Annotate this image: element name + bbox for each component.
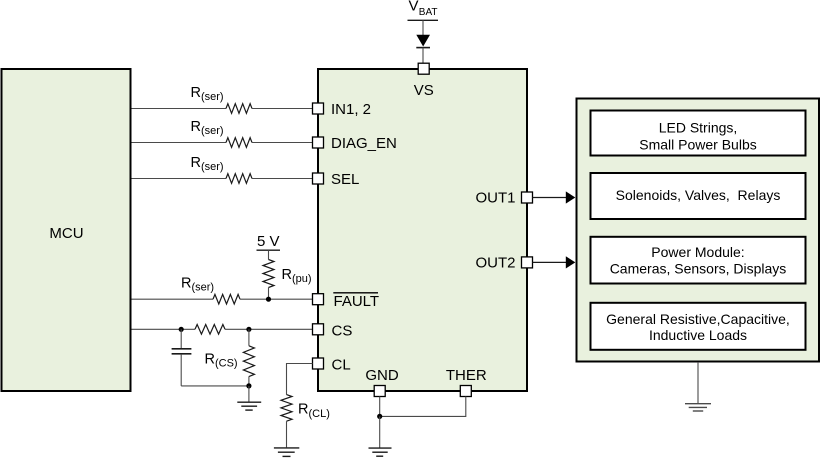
wire OUT2 to loads: [533, 256, 576, 268]
wire OUT1 to loads: [533, 191, 576, 203]
svg-text:Small Power Bulbs: Small Power Bulbs: [639, 137, 757, 153]
diode (reverse battery protection): [416, 35, 430, 48]
load box: General Resistive, Capacitive, Inductive Loads: [591, 303, 806, 350]
wire diode to VS pin: [422, 48, 424, 64]
svg-text:SEL: SEL: [331, 171, 359, 188]
pin IN1, 2: [313, 101, 372, 118]
pin CL: [313, 357, 351, 374]
wire MCU to R(ser) row 2: [132, 142, 227, 144]
svg-text:Inductive Loads: Inductive Loads: [649, 327, 747, 343]
ground GND/THER: [369, 416, 392, 456]
junction FAULT/R(pu): [266, 297, 271, 302]
svg-text:Solenoids, Valves, Relays: Solenoids, Valves, Relays: [616, 187, 781, 203]
svg-text:R(ser): R(ser): [191, 119, 224, 137]
svg-text:CL: CL: [332, 357, 351, 374]
resistor R(ser) row 3: [191, 155, 252, 184]
ground loads: [685, 404, 711, 411]
wire THER to GND net: [380, 397, 466, 417]
svg-text:OUT1: OUT1: [475, 189, 515, 206]
wire R(CS) to bottom junction: [248, 377, 250, 386]
svg-text:R(CS): R(CS): [205, 352, 238, 370]
pin OUT2: [475, 254, 532, 271]
junction CS bottom: [246, 383, 251, 388]
wire bottom rail CS network: [181, 385, 249, 387]
wire R(ser) to pin row 2: [252, 142, 313, 144]
pin GND: [365, 367, 399, 397]
wire MCU to CS network: [132, 328, 196, 330]
svg-text:Power Module:: Power Module:: [651, 244, 744, 260]
wire CS junction to capacitor: [180, 329, 182, 348]
supply rail 5 V: [257, 233, 281, 250]
wire 5V to R(pu): [268, 250, 270, 259]
ground CS network: [237, 386, 261, 410]
svg-text:IN1, 2: IN1, 2: [331, 101, 371, 118]
svg-text:Cameras, Sensors, Displays: Cameras, Sensors, Displays: [610, 261, 787, 277]
wire V_BAT to diode: [422, 20, 424, 35]
resistor R(CL): [281, 395, 330, 422]
wire R(CL) to ground: [286, 421, 288, 447]
wire CL pin to R(CL): [287, 364, 313, 395]
IC block (high-side switch): [318, 69, 527, 391]
svg-text:R(ser): R(ser): [191, 155, 224, 173]
resistor R(ser) row 1: [191, 85, 252, 113]
wire CS resistor to CS pin: [225, 328, 313, 330]
pin VS: [414, 63, 434, 99]
wire GND pin down: [379, 397, 381, 417]
svg-text:R(ser): R(ser): [191, 85, 224, 103]
pin THER: [446, 367, 487, 397]
svg-text:BAT: BAT: [419, 7, 438, 18]
wire R(pu) to FAULT line: [268, 288, 270, 300]
pin FAULT (active low, overline): [313, 293, 380, 310]
resistor CS filter (series): [195, 325, 225, 335]
svg-text:DIAG_EN: DIAG_EN: [331, 135, 397, 152]
resistor R(ser) row 2: [191, 119, 252, 148]
load box: Solenoids, Valves, Relays: [591, 173, 806, 219]
wire capacitor to bottom rail: [180, 354, 182, 386]
pin DIAG_EN: [313, 135, 397, 152]
capacitor CS filter: [172, 349, 192, 354]
junction GND net: [377, 414, 382, 419]
pin SEL: [313, 171, 360, 188]
svg-text:R(CL): R(CL): [298, 402, 330, 420]
load box: Power Module: Cameras, Sensors, Displays: [591, 237, 806, 284]
wire R(ser) to FAULT pin: [240, 298, 313, 300]
supply rail V_BAT: [408, 0, 439, 20]
junction CS left: [179, 327, 184, 332]
wire R(ser) to pin row 3: [252, 178, 313, 180]
junction CS right: [246, 327, 251, 332]
svg-text:General Resistive,Capacitive,: General Resistive,Capacitive,: [606, 311, 790, 327]
resistor R(CS): [205, 346, 255, 377]
svg-text:FAULT: FAULT: [334, 293, 380, 310]
ground R(CL): [274, 448, 299, 457]
svg-text:R(ser): R(ser): [181, 276, 214, 294]
svg-text:MCU: MCU: [49, 225, 83, 242]
resistor R(pu): [263, 260, 312, 288]
svg-text:CS: CS: [332, 323, 353, 340]
svg-text:VS: VS: [414, 82, 434, 99]
svg-text:V: V: [409, 0, 419, 15]
pin CS: [313, 323, 353, 340]
resistor R(ser) FAULT row: [181, 276, 240, 305]
wire MCU to R(ser) row 3: [132, 178, 227, 180]
MCU block: [2, 69, 131, 391]
wire CS junction to R(CS): [248, 329, 250, 346]
svg-text:GND: GND: [365, 367, 399, 384]
svg-text:THER: THER: [446, 367, 487, 384]
svg-text:5 V: 5 V: [257, 233, 280, 250]
wire MCU to R(ser) FAULT row: [132, 298, 214, 300]
wire loads box to ground: [697, 362, 699, 403]
loads outer box: [577, 99, 820, 362]
svg-text:R(pu): R(pu): [282, 267, 312, 285]
svg-text:LED Strings,: LED Strings,: [659, 120, 738, 136]
load box: LED Strings, Small Power Bulbs: [591, 111, 806, 156]
wire MCU to R(ser) row 1: [132, 108, 227, 110]
pin OUT1: [475, 189, 532, 206]
svg-text:OUT2: OUT2: [475, 254, 515, 271]
wire R(ser) to pin row 1: [252, 108, 313, 110]
